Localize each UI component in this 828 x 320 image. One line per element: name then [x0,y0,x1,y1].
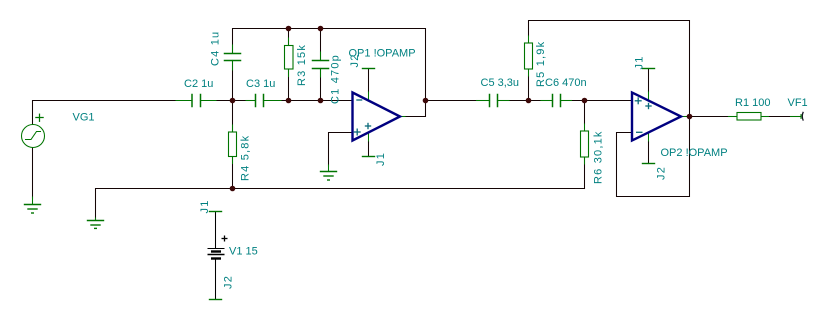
svg-text:C6 470n: C6 470n [545,77,587,89]
svg-text:J1: J1 [634,55,646,69]
svg-text:R5 1,9k: R5 1,9k [535,41,547,87]
svg-text:R6 30,1k: R6 30,1k [593,130,605,184]
svg-text:R4 5,8k: R4 5,8k [240,135,252,181]
svg-text:OP2 !OPAMP: OP2 !OPAMP [661,147,728,159]
svg-text:V1 15: V1 15 [229,246,258,258]
svg-text:J2: J2 [223,275,235,289]
svg-text:C4 1u: C4 1u [210,31,222,66]
svg-text:C3 1u: C3 1u [246,78,275,90]
svg-text:C5 3,3u: C5 3,3u [481,77,520,89]
svg-text:J2: J2 [349,53,361,67]
svg-text:R3 15k: R3 15k [296,44,308,86]
svg-text:C1 470p: C1 470p [330,54,342,104]
svg-text:J1: J1 [375,152,387,166]
svg-text:J1: J1 [199,199,211,213]
svg-text:R1 100: R1 100 [735,97,770,109]
svg-text:VF1: VF1 [788,97,808,109]
svg-text:J2: J2 [656,166,668,180]
svg-text:C2 1u: C2 1u [184,78,213,90]
svg-text:VG1: VG1 [73,112,95,124]
